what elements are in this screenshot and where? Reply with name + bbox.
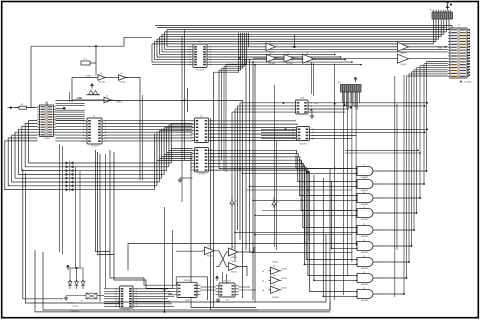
svg-text:74: 74 bbox=[363, 272, 365, 274]
svg-text:74LS07: 74LS07 bbox=[400, 64, 407, 66]
svg-text:74LS08: 74LS08 bbox=[361, 219, 369, 221]
svg-text:74LS74: 74LS74 bbox=[184, 280, 191, 282]
svg-text:74LS08: 74LS08 bbox=[361, 252, 369, 254]
svg-text:74LS06: 74LS06 bbox=[286, 63, 293, 65]
svg-text:74LS04: 74LS04 bbox=[272, 262, 278, 264]
svg-text:74LS05: 74LS05 bbox=[116, 102, 123, 104]
svg-text:74LS06: 74LS06 bbox=[268, 63, 275, 65]
svg-text:74LS04: 74LS04 bbox=[281, 278, 287, 280]
svg-text:D1: D1 bbox=[235, 201, 237, 203]
svg-text:74LS08: 74LS08 bbox=[361, 268, 369, 270]
svg-text:CON20: CON20 bbox=[43, 138, 51, 140]
svg-text:74LS123: 74LS123 bbox=[223, 281, 231, 283]
svg-text:74: 74 bbox=[363, 240, 365, 242]
svg-text:74LS04: 74LS04 bbox=[281, 288, 287, 290]
svg-text:74LS04: 74LS04 bbox=[281, 269, 287, 271]
svg-text:JP2: JP2 bbox=[337, 82, 340, 84]
svg-text:74LS05: 74LS05 bbox=[85, 76, 92, 78]
svg-text:R1: R1 bbox=[21, 104, 23, 106]
svg-text:U9: U9 bbox=[93, 116, 95, 118]
svg-text:74LS244: 74LS244 bbox=[197, 174, 206, 176]
svg-text:74LS08: 74LS08 bbox=[361, 300, 369, 302]
svg-text:74LS05: 74LS05 bbox=[99, 81, 106, 83]
svg-text:U12: U12 bbox=[225, 300, 228, 302]
svg-text:74: 74 bbox=[363, 165, 365, 167]
svg-text:GND: GND bbox=[438, 48, 443, 50]
svg-text:74LS08: 74LS08 bbox=[361, 236, 369, 238]
svg-text:X1: X1 bbox=[81, 301, 83, 303]
svg-text:74LS06: 74LS06 bbox=[305, 64, 312, 66]
svg-text:74LS08: 74LS08 bbox=[361, 204, 369, 206]
svg-text:74LS14: 74LS14 bbox=[206, 256, 213, 258]
svg-text:74LS05: 74LS05 bbox=[119, 81, 126, 83]
svg-text:74: 74 bbox=[363, 256, 365, 258]
svg-text:D1: D1 bbox=[277, 202, 279, 204]
svg-text:74LS244: 74LS244 bbox=[196, 70, 205, 72]
svg-text:74LS14: 74LS14 bbox=[230, 257, 237, 259]
svg-text:74LS14: 74LS14 bbox=[230, 271, 237, 273]
svg-text:74: 74 bbox=[363, 224, 365, 226]
svg-text:74LS393: 74LS393 bbox=[299, 144, 307, 146]
svg-text:CON40A: CON40A bbox=[464, 81, 472, 84]
svg-text:74LS08: 74LS08 bbox=[361, 284, 369, 286]
svg-text:74LS240: 74LS240 bbox=[90, 146, 99, 148]
svg-text:JP1: JP1 bbox=[429, 10, 432, 12]
svg-text:74: 74 bbox=[363, 207, 365, 209]
svg-text:74: 74 bbox=[363, 178, 365, 180]
svg-text:74LS04: 74LS04 bbox=[272, 297, 279, 299]
svg-text:74: 74 bbox=[363, 288, 365, 290]
svg-text:74: 74 bbox=[363, 192, 365, 194]
svg-text:TLC555: TLC555 bbox=[72, 306, 78, 308]
